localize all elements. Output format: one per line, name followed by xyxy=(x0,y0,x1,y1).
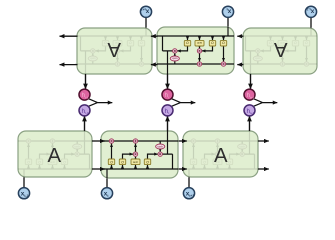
svg-text:t: t xyxy=(168,95,169,99)
svg-text:t-1: t-1 xyxy=(85,111,89,115)
svg-text:t: t xyxy=(168,111,169,115)
svg-text:t+1: t+1 xyxy=(250,95,255,99)
svg-text:t+1: t+1 xyxy=(250,111,255,115)
svg-text:t-1: t-1 xyxy=(85,95,89,99)
